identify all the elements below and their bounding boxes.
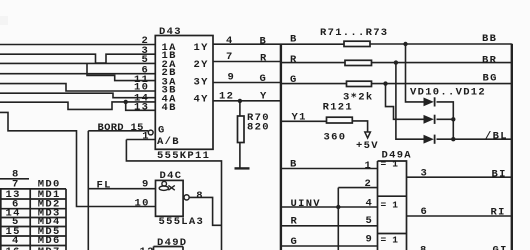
svg-text:555KP11: 555KP11 [157, 150, 210, 162]
svg-text:D4C: D4C [160, 170, 183, 182]
svg-text:4B: 4B [162, 102, 177, 114]
svg-text:12: 12 [219, 91, 234, 103]
svg-text:1: 1 [365, 160, 373, 172]
svg-text:= 1: = 1 [381, 159, 399, 170]
svg-text:16: 16 [6, 246, 21, 250]
svg-text:1: 1 [142, 130, 150, 142]
svg-text:13: 13 [134, 101, 149, 113]
svg-text:Y1: Y1 [292, 112, 307, 124]
svg-text:Y: Y [260, 91, 268, 103]
svg-text:GI: GI [493, 244, 508, 250]
svg-text:12: 12 [140, 246, 155, 250]
svg-text:2: 2 [365, 178, 373, 190]
svg-text:B: B [290, 33, 298, 45]
svg-text:= 1: = 1 [381, 199, 399, 210]
svg-text:+5V: +5V [356, 140, 379, 152]
svg-text:5: 5 [366, 215, 374, 227]
svg-text:820: 820 [247, 121, 270, 133]
svg-text:G: G [291, 236, 299, 248]
svg-text:8: 8 [420, 245, 428, 250]
svg-text:R: R [260, 53, 268, 65]
svg-text:3Y: 3Y [194, 76, 209, 88]
svg-text:G: G [290, 74, 298, 86]
svg-text:R: R [291, 216, 299, 228]
svg-text:BG: BG [483, 73, 498, 85]
svg-text:555LA3: 555LA3 [159, 216, 205, 228]
svg-text:B: B [290, 159, 298, 171]
svg-text:VD10..VD12: VD10..VD12 [410, 86, 486, 98]
svg-text:/BL: /BL [485, 131, 508, 143]
svg-text:4Y: 4Y [194, 93, 209, 105]
svg-text:6: 6 [421, 206, 429, 218]
svg-text:9: 9 [366, 234, 374, 246]
svg-text:RI: RI [491, 206, 506, 218]
svg-text:9: 9 [228, 71, 236, 83]
svg-text:4: 4 [226, 35, 234, 47]
svg-text:D43: D43 [159, 26, 182, 38]
svg-text:8: 8 [196, 190, 204, 202]
svg-text:D49D: D49D [157, 237, 187, 249]
svg-text:BORD 15: BORD 15 [98, 122, 144, 134]
svg-text:BB: BB [482, 33, 497, 45]
svg-text:BR: BR [482, 54, 497, 66]
svg-text:= 1: = 1 [381, 234, 399, 245]
svg-text:360: 360 [324, 132, 347, 144]
svg-text:A/B: A/B [157, 136, 180, 148]
svg-text:9: 9 [142, 178, 150, 190]
svg-text:10: 10 [135, 197, 150, 209]
svg-text:7: 7 [226, 51, 234, 63]
svg-text:R: R [290, 54, 298, 66]
svg-text:1Y: 1Y [194, 42, 209, 54]
svg-text:R121: R121 [323, 102, 353, 114]
svg-text:FL: FL [97, 180, 112, 192]
svg-text:UINV: UINV [291, 198, 321, 210]
svg-text:R71...R73: R71...R73 [320, 27, 388, 39]
svg-text:4: 4 [366, 198, 374, 210]
svg-text:G: G [158, 124, 166, 136]
svg-text:3: 3 [421, 168, 429, 180]
svg-text:G: G [260, 73, 268, 85]
svg-text:MD7: MD7 [38, 246, 61, 250]
svg-text:B: B [260, 36, 268, 48]
svg-text:2Y: 2Y [194, 59, 209, 71]
svg-text:BI: BI [492, 169, 507, 181]
